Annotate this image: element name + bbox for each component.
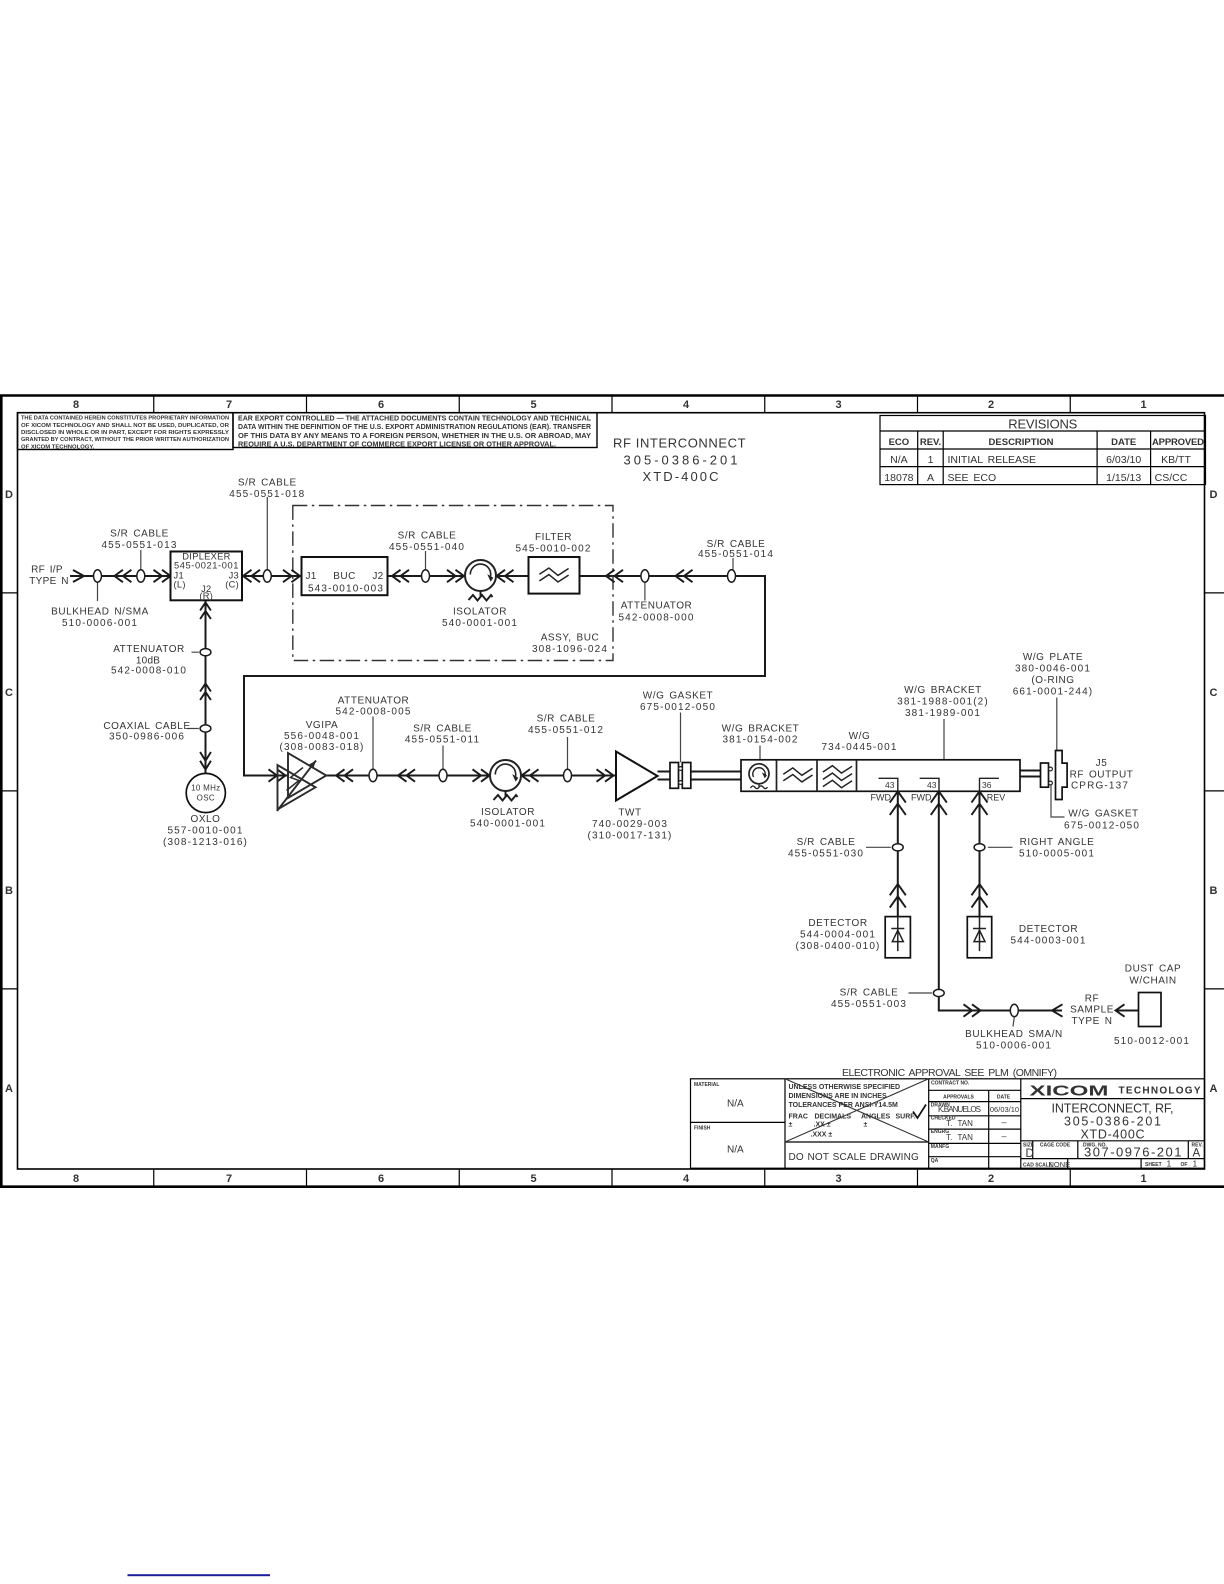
svg-text:1: 1 <box>1140 399 1146 411</box>
svg-text:542-0008-000: 542-0008-000 <box>618 613 694 624</box>
svg-text:DUST CAP: DUST CAP <box>1125 964 1181 975</box>
svg-text:CS/CC: CS/CC <box>1155 472 1188 484</box>
svg-text:(308-1213-016): (308-1213-016) <box>163 837 248 848</box>
svg-text:FILTER: FILTER <box>535 532 572 543</box>
svg-text:S/R CABLE: S/R CABLE <box>238 478 297 489</box>
svg-text:OF XICOM TECHNOLOGY.: OF XICOM TECHNOLOGY. <box>21 444 95 450</box>
svg-text:510-0012-001: 510-0012-001 <box>1114 1036 1190 1047</box>
svg-text:T. TAN: T. TAN <box>946 1133 973 1142</box>
svg-text:675-0012-050: 675-0012-050 <box>1064 821 1140 832</box>
svg-text:OSC: OSC <box>197 794 215 803</box>
svg-text:INITIAL RELEASE: INITIAL RELEASE <box>948 454 1037 466</box>
svg-text:S/R CABLE: S/R CABLE <box>110 529 169 540</box>
svg-text:TWT: TWT <box>618 808 641 819</box>
svg-text:B: B <box>5 885 13 897</box>
svg-text:675-0012-050: 675-0012-050 <box>640 702 716 713</box>
svg-text:(310-0017-131): (310-0017-131) <box>587 831 672 842</box>
svg-text:J1: J1 <box>306 571 317 582</box>
svg-text:455-0551-030: 455-0551-030 <box>788 849 864 860</box>
svg-text:ATTENUATOR: ATTENUATOR <box>113 644 185 655</box>
svg-text:SAMPLE: SAMPLE <box>1070 1005 1114 1016</box>
svg-text:740-0029-003: 740-0029-003 <box>592 819 668 830</box>
svg-text:REV: REV <box>987 792 1006 802</box>
svg-text:EAR EXPORT CONTROLLED — THE AT: EAR EXPORT CONTROLLED — THE ATTACHED DOC… <box>238 416 592 423</box>
svg-text:THE DATA CONTAINED HEREIN CONS: THE DATA CONTAINED HEREIN CONSTITUTES PR… <box>21 416 229 422</box>
svg-text:308-1096-024: 308-1096-024 <box>532 644 608 655</box>
svg-text:8: 8 <box>73 1173 79 1185</box>
svg-text:543-0010-003: 543-0010-003 <box>308 584 384 595</box>
svg-text:305-0386-201: 305-0386-201 <box>1064 1114 1161 1128</box>
svg-text:455-0551-012: 455-0551-012 <box>528 725 604 736</box>
svg-text:A: A <box>5 1083 13 1095</box>
svg-text:S/R CABLE: S/R CABLE <box>398 531 457 542</box>
svg-text:ATTENUATOR: ATTENUATOR <box>338 696 410 707</box>
svg-text:542-0008-010: 542-0008-010 <box>111 666 187 677</box>
svg-text:DESCRIPTION: DESCRIPTION <box>989 437 1054 448</box>
svg-text:ELECTRONIC APPROVAL SEE PLM (O: ELECTRONIC APPROVAL SEE PLM (OMNIFY) <box>842 1067 1057 1079</box>
svg-text:OF XICOM TECHNOLOGY AND SHALL: OF XICOM TECHNOLOGY AND SHALL NOT BE USE… <box>21 423 230 429</box>
svg-text:7: 7 <box>226 1173 232 1185</box>
svg-text:SHEET: SHEET <box>1145 1162 1162 1168</box>
svg-text:W/G BRACKET: W/G BRACKET <box>722 724 800 735</box>
svg-text:FINISH: FINISH <box>694 1126 711 1132</box>
svg-text:REQUIRE A U.S. DEPARTMENT OF C: REQUIRE A U.S. DEPARTMENT OF COMMERCE EX… <box>238 442 556 449</box>
svg-text:ASSY, BUC: ASSY, BUC <box>541 633 600 644</box>
svg-text:545-0010-002: 545-0010-002 <box>515 544 591 555</box>
svg-text:455-0551-018: 455-0551-018 <box>229 489 305 500</box>
svg-text:A: A <box>1210 1083 1218 1095</box>
svg-text:455-0551-014: 455-0551-014 <box>698 549 774 560</box>
svg-text:RF INTERCONNECT: RF INTERCONNECT <box>613 436 747 451</box>
svg-text:TOLERANCES PER ANSI-Y14.5M: TOLERANCES PER ANSI-Y14.5M <box>789 1102 898 1109</box>
svg-text:CPRG-137: CPRG-137 <box>1071 781 1129 792</box>
svg-text:BULKHEAD SMA/N: BULKHEAD SMA/N <box>965 1029 1063 1040</box>
svg-text:380-0046-001: 380-0046-001 <box>1015 664 1091 675</box>
svg-text:NONE: NONE <box>1049 1160 1071 1169</box>
svg-text:DATE: DATE <box>997 1094 1011 1100</box>
svg-text:TYPE N: TYPE N <box>29 576 69 587</box>
svg-text:W/G GASKET: W/G GASKET <box>643 691 713 702</box>
svg-text:DIMENSIONS ARE IN INCHES: DIMENSIONS ARE IN INCHES <box>789 1093 887 1100</box>
svg-text:734-0445-001: 734-0445-001 <box>821 742 897 753</box>
svg-text:3: 3 <box>835 399 841 411</box>
svg-text:TECHNOLOGY: TECHNOLOGY <box>1119 1086 1201 1097</box>
svg-text:–: – <box>1001 1117 1006 1127</box>
svg-text:8: 8 <box>73 399 79 411</box>
svg-text:540-0001-001: 540-0001-001 <box>442 618 518 629</box>
svg-text:FWD: FWD <box>911 792 932 802</box>
svg-text:544-0004-001: 544-0004-001 <box>800 930 876 941</box>
svg-text:S/R CABLE: S/R CABLE <box>840 988 899 999</box>
svg-text:REV.: REV. <box>920 437 941 448</box>
svg-text:5: 5 <box>530 399 536 411</box>
svg-text:D: D <box>5 489 13 501</box>
svg-text:(O-RING: (O-RING <box>1031 675 1074 686</box>
svg-text:W/CHAIN: W/CHAIN <box>1129 976 1176 987</box>
svg-text:A: A <box>927 472 934 484</box>
svg-text:381-1989-001: 381-1989-001 <box>905 708 981 719</box>
svg-text:B: B <box>1210 885 1218 897</box>
svg-text:MANFG: MANFG <box>931 1144 949 1150</box>
svg-text:6/03/10: 6/03/10 <box>1106 454 1141 466</box>
svg-text:(308-0400-010): (308-0400-010) <box>795 941 880 952</box>
svg-text:SEE ECO: SEE ECO <box>948 472 997 484</box>
svg-text:18078: 18078 <box>884 472 913 484</box>
svg-text:43: 43 <box>927 780 937 790</box>
svg-text:1: 1 <box>1167 1159 1172 1169</box>
svg-text:06/03/10: 06/03/10 <box>990 1105 1019 1114</box>
svg-text:J5: J5 <box>1096 758 1108 769</box>
svg-text:6: 6 <box>378 399 384 411</box>
svg-text:36: 36 <box>982 780 992 790</box>
svg-text:DATA WITHIN THE DEFINITION OF: DATA WITHIN THE DEFINITION OF THE U.S. E… <box>238 424 591 431</box>
svg-text:510-0006-001: 510-0006-001 <box>976 1041 1052 1052</box>
svg-text:455-0551-040: 455-0551-040 <box>389 542 465 553</box>
svg-text:D: D <box>1210 489 1218 501</box>
svg-text:(R): (R) <box>199 591 213 601</box>
svg-text:5: 5 <box>530 1173 536 1185</box>
svg-text:APPROVALS: APPROVALS <box>943 1094 974 1100</box>
svg-text:1: 1 <box>1140 1173 1146 1185</box>
svg-text:43: 43 <box>885 780 895 790</box>
svg-text:ATTENUATOR: ATTENUATOR <box>621 601 693 612</box>
svg-text:RF OUTPUT: RF OUTPUT <box>1070 769 1134 780</box>
svg-text:350-0986-006: 350-0986-006 <box>109 732 185 743</box>
svg-text:2: 2 <box>988 1173 994 1185</box>
svg-text:W/G BRACKET: W/G BRACKET <box>904 685 982 696</box>
svg-text:(308-0083-018): (308-0083-018) <box>279 742 364 753</box>
svg-text:–: – <box>1001 1131 1006 1141</box>
svg-text:381-0154-002: 381-0154-002 <box>722 735 798 746</box>
svg-text:COAXIAL CABLE: COAXIAL CABLE <box>103 721 190 732</box>
svg-text:(L): (L) <box>174 580 186 590</box>
svg-text:661-0001-244): 661-0001-244) <box>1013 687 1094 698</box>
svg-text:OF: OF <box>1181 1162 1188 1168</box>
svg-text:QA: QA <box>931 1158 939 1164</box>
svg-text:XICOM: XICOM <box>1030 1082 1109 1099</box>
svg-text:W/G PLATE: W/G PLATE <box>1023 652 1083 663</box>
svg-text:1/15/13: 1/15/13 <box>1106 472 1141 484</box>
svg-text:N/A: N/A <box>727 1145 744 1156</box>
svg-text:N/A: N/A <box>890 454 908 466</box>
svg-text:381-1988-001(2): 381-1988-001(2) <box>897 697 989 708</box>
svg-text:UNLESS OTHERWISE SPECIFIED: UNLESS OTHERWISE SPECIFIED <box>789 1084 901 1091</box>
svg-text:T. TAN: T. TAN <box>946 1119 973 1128</box>
svg-text:OF THIS DATA BY ANY MEANS TO A: OF THIS DATA BY ANY MEANS TO A FOREIGN P… <box>238 433 591 440</box>
svg-text:C: C <box>5 687 13 699</box>
svg-text:542-0008-005: 542-0008-005 <box>335 707 411 718</box>
svg-text:4: 4 <box>683 1173 690 1185</box>
svg-text:ISOLATOR: ISOLATOR <box>453 607 507 618</box>
svg-text:545-0021-001: 545-0021-001 <box>174 561 239 571</box>
svg-text:N/A: N/A <box>727 1099 744 1110</box>
svg-text:6: 6 <box>378 1173 384 1185</box>
svg-text:S/R CABLE: S/R CABLE <box>413 724 472 735</box>
svg-text:DETECTOR: DETECTOR <box>1019 924 1078 935</box>
svg-text:BUC: BUC <box>333 571 356 582</box>
svg-text:455-0551-013: 455-0551-013 <box>101 540 177 551</box>
svg-text:J2: J2 <box>372 571 383 582</box>
svg-text:RF: RF <box>1085 994 1099 1005</box>
svg-text:RIGHT ANGLE: RIGHT ANGLE <box>1020 837 1095 848</box>
svg-text:BULKHEAD N/SMA: BULKHEAD N/SMA <box>51 607 149 618</box>
svg-text:W/G GASKET: W/G GASKET <box>1068 809 1138 820</box>
svg-text:OXLO: OXLO <box>191 814 221 825</box>
svg-text:2: 2 <box>988 399 994 411</box>
svg-text:RF I/P: RF I/P <box>31 565 63 576</box>
svg-text:3: 3 <box>835 1173 841 1185</box>
svg-text:FWD: FWD <box>871 792 892 802</box>
svg-text:C: C <box>1210 687 1218 699</box>
svg-text:7: 7 <box>226 399 232 411</box>
svg-text:K.BANUELOS: K.BANUELOS <box>938 1105 981 1114</box>
svg-text:DATE: DATE <box>1111 437 1136 448</box>
svg-text:D: D <box>1026 1148 1034 1160</box>
svg-text:W/G: W/G <box>849 731 871 742</box>
svg-text:ECO: ECO <box>889 437 910 448</box>
svg-text:556-0048-001: 556-0048-001 <box>284 731 360 742</box>
svg-text:DISCLOSED IN WHOLE OR IN PART,: DISCLOSED IN WHOLE OR IN PART, EXCEPT FO… <box>21 430 229 436</box>
svg-text:XTD-400C: XTD-400C <box>1081 1127 1145 1141</box>
svg-text:S/R CABLE: S/R CABLE <box>797 837 856 848</box>
svg-text:REVISIONS: REVISIONS <box>1008 416 1077 431</box>
svg-text:CAGE CODE: CAGE CODE <box>1040 1142 1071 1148</box>
svg-text:DETECTOR: DETECTOR <box>808 918 867 929</box>
svg-text:DO NOT SCALE DRAWING: DO NOT SCALE DRAWING <box>789 1152 919 1163</box>
svg-text:10 MHz: 10 MHz <box>191 784 220 793</box>
svg-text:1: 1 <box>928 454 934 466</box>
svg-text:CONTRACT NO.: CONTRACT NO. <box>931 1081 970 1087</box>
svg-text:455-0551-003: 455-0551-003 <box>831 999 907 1010</box>
svg-text:(C): (C) <box>225 580 239 590</box>
svg-text:1: 1 <box>1193 1159 1198 1169</box>
svg-text:APPROVED: APPROVED <box>1152 437 1204 448</box>
svg-text:ISOLATOR: ISOLATOR <box>481 807 535 818</box>
svg-text:KB/TT: KB/TT <box>1161 454 1191 466</box>
svg-text:.XXX ±: .XXX ± <box>811 1131 833 1138</box>
svg-text:MATERIAL: MATERIAL <box>694 1082 719 1088</box>
svg-text:510-0006-001: 510-0006-001 <box>62 618 138 629</box>
svg-text:307-0976-201: 307-0976-201 <box>1084 1145 1183 1160</box>
svg-text:VGIPA: VGIPA <box>306 720 339 731</box>
svg-text:510-0005-001: 510-0005-001 <box>1019 849 1095 860</box>
svg-text:TYPE N: TYPE N <box>1071 1016 1112 1027</box>
svg-text:4: 4 <box>683 399 690 411</box>
svg-text:GRANTED BY CONTRACT, WITHOUT T: GRANTED BY CONTRACT, WITHOUT THE PRIOR W… <box>21 437 229 443</box>
svg-text:544-0003-001: 544-0003-001 <box>1010 936 1086 947</box>
svg-text:540-0001-001: 540-0001-001 <box>470 819 546 830</box>
svg-text:557-0010-001: 557-0010-001 <box>167 826 243 837</box>
svg-text:455-0551-011: 455-0551-011 <box>405 735 480 746</box>
svg-text:S/R CABLE: S/R CABLE <box>537 714 596 725</box>
